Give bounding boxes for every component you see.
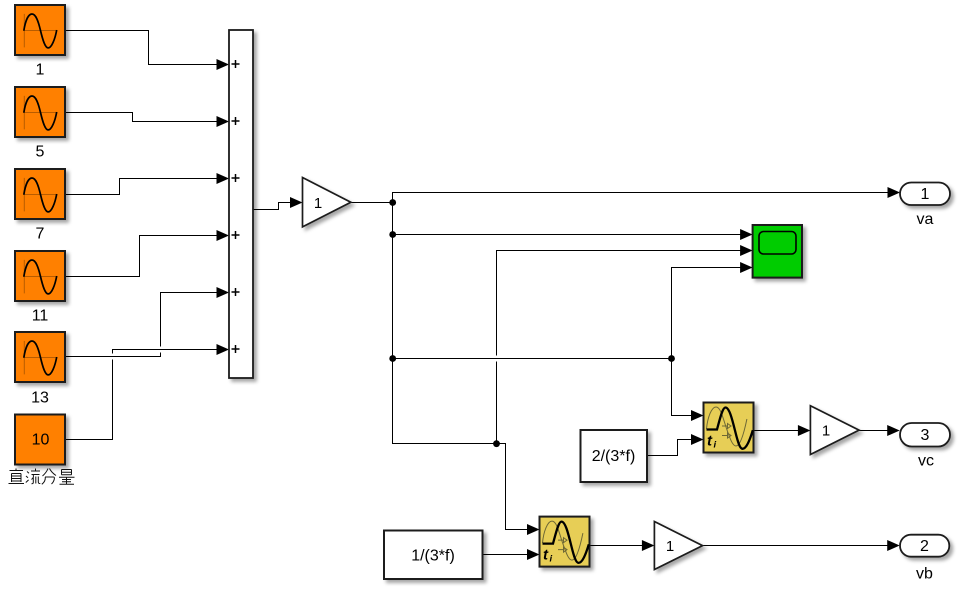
svg-text:2/(3*f): 2/(3*f) bbox=[592, 448, 636, 465]
svg-text:vc: vc bbox=[918, 453, 934, 470]
svg-text:11: 11 bbox=[32, 308, 49, 325]
svg-text:1: 1 bbox=[36, 62, 45, 79]
svg-text:va: va bbox=[917, 211, 934, 228]
svg-text:1: 1 bbox=[666, 538, 674, 555]
svg-text:2: 2 bbox=[920, 538, 929, 555]
svg-text:5: 5 bbox=[36, 144, 45, 161]
svg-text:7: 7 bbox=[36, 226, 45, 243]
svg-text:1: 1 bbox=[921, 186, 930, 203]
svg-text:1/(3*f): 1/(3*f) bbox=[411, 548, 455, 565]
svg-text:3: 3 bbox=[921, 427, 930, 444]
svg-text:1: 1 bbox=[314, 195, 322, 212]
svg-text:10: 10 bbox=[32, 432, 50, 449]
svg-text:vb: vb bbox=[916, 566, 933, 583]
svg-text:13: 13 bbox=[31, 390, 49, 407]
svg-text:1: 1 bbox=[822, 423, 830, 440]
